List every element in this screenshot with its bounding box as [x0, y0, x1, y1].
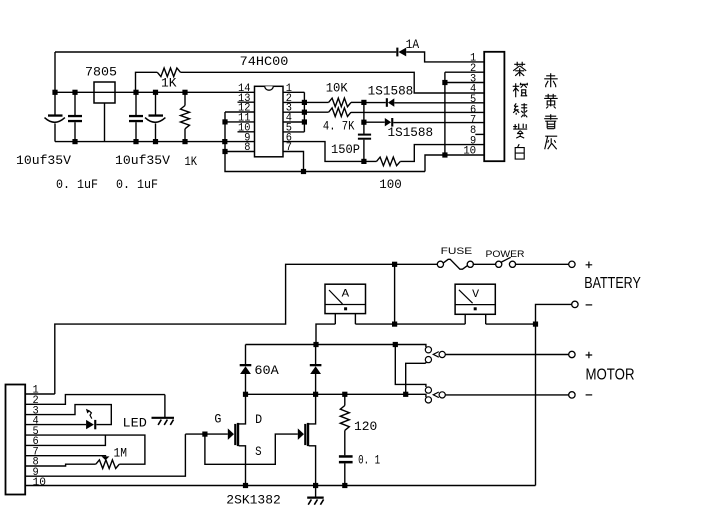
wire contact feed — [316, 344, 395, 346]
capacitor C6 0.1 — [339, 455, 353, 458]
meter A right leg — [354, 314, 356, 325]
wire +V rail (IC pin14) — [55, 91, 255, 93]
fuse F1 — [437, 261, 443, 267]
Q2 drain lead — [309, 394, 316, 424]
kanji hai 灰 — [545, 136, 558, 149]
contact circle F with arrow — [439, 392, 445, 398]
junction — [361, 100, 366, 105]
junction — [72, 139, 77, 144]
svg-text:1K: 1K — [161, 76, 177, 90]
junction — [313, 483, 318, 488]
junction — [533, 322, 538, 327]
IC pin 10 stub — [238, 131, 255, 133]
svg-text:120: 120 — [354, 420, 377, 434]
J2 pin2 wire to ground — [25, 395, 165, 405]
wire to contact A — [395, 345, 426, 348]
kanji dai 橙 — [513, 83, 528, 98]
capacitor C4 10uf35V electrolytic — [155, 92, 157, 115]
ground symbol under Q2 — [315, 486, 317, 498]
kanji cha 茶 — [513, 62, 526, 77]
junction — [133, 139, 138, 144]
svg-text:10: 10 — [463, 146, 476, 158]
wire drain rail — [246, 394, 426, 397]
J2 pin3 wire loop to LED cathode — [25, 405, 111, 425]
IC U1 74HC00 — [255, 86, 284, 157]
wire top rail from +12V to diode — [55, 51, 396, 53]
wire IC pins1-5 tie — [303, 92, 305, 132]
junction — [243, 483, 248, 488]
svg-text:10uf35V: 10uf35V — [16, 154, 72, 168]
svg-text:1S1588: 1S1588 — [368, 85, 414, 99]
junction — [243, 392, 248, 397]
wire battery- to ground rail — [536, 304, 572, 485]
junction — [442, 80, 447, 85]
wire left drop — [54, 52, 56, 92]
diode D3 1A — [396, 48, 398, 57]
meter M1 ammeter — [325, 284, 366, 313]
svg-text:10K: 10K — [326, 81, 348, 95]
svg-text:100: 100 — [379, 178, 402, 192]
wire diode to connector pin1 — [406, 52, 484, 62]
kanji aka 赤 — [544, 73, 558, 87]
junction pin2 — [302, 100, 307, 105]
svg-text:POWER: POWER — [486, 249, 525, 260]
svg-text:7: 7 — [286, 142, 292, 154]
svg-text:8: 8 — [244, 142, 250, 154]
junction — [313, 342, 318, 347]
diode D1 1S1588 — [364, 102, 386, 104]
junction — [342, 392, 347, 397]
svg-text:10: 10 — [33, 477, 47, 489]
junction pin8 — [222, 149, 227, 154]
junction — [182, 139, 187, 144]
svg-text:60A: 60A — [254, 364, 279, 378]
junction — [52, 90, 57, 95]
IC pin 4 — [283, 121, 304, 123]
wire to 60A diode 1 — [246, 344, 317, 346]
terminal battery + — [569, 261, 575, 267]
kanji shiro 白 — [515, 144, 524, 159]
diode D4 60A — [245, 345, 247, 365]
wire gate tie to Q2 — [205, 434, 298, 464]
LED arrow — [89, 411, 91, 419]
wire pins2-3-10 tie — [444, 72, 446, 155]
IC pin 11 — [225, 121, 255, 123]
connector pin3 wire — [445, 82, 484, 84]
junction — [342, 483, 347, 488]
wire gnd rail (IC pin9) — [55, 141, 255, 143]
junction — [403, 392, 408, 397]
contact circle C with arrow — [439, 351, 445, 357]
connector J2 — [6, 385, 26, 495]
wire contact B to drain rail — [406, 362, 427, 395]
wire source/ground rail (J2 pin10) — [25, 485, 535, 487]
contact circle D — [425, 387, 431, 393]
regulator U2 7805 — [94, 82, 115, 103]
junction gate — [202, 432, 207, 437]
resistor R1 1K horizontal — [136, 72, 158, 92]
svg-text:150P: 150P — [331, 143, 360, 157]
minus sign battery — [586, 304, 593, 306]
svg-text:1A: 1A — [406, 38, 420, 52]
J2 pin5 wire to pot right — [25, 435, 145, 464]
J2 pin7 wire to wiper — [25, 455, 105, 458]
junction — [442, 152, 447, 157]
junction — [361, 159, 366, 164]
IC pin 12 — [225, 111, 255, 113]
diode D2 1S1588 — [364, 121, 385, 123]
IC pin 6 wire — [283, 142, 377, 162]
svg-text:1M: 1M — [114, 447, 128, 461]
wire J2 pin1 up to battery feed — [25, 393, 55, 395]
svg-text:1S1588: 1S1588 — [388, 126, 434, 140]
junction — [153, 90, 158, 95]
svg-text:0. 1uF: 0. 1uF — [116, 178, 158, 192]
contact circle A — [425, 347, 431, 353]
J2 pin8 wire to pot left — [25, 464, 96, 466]
wire to motor+ — [445, 354, 568, 356]
svg-text:2SK1382: 2SK1382 — [226, 493, 280, 507]
potentiometer VR1 1M — [96, 460, 120, 469]
junction pin4 — [302, 119, 307, 124]
connector pin8 stub — [475, 133, 484, 135]
switch S1 POWER — [496, 261, 502, 267]
svg-text:BATTERY: BATTERY — [584, 275, 641, 292]
svg-text:D: D — [255, 413, 262, 427]
svg-text:S: S — [255, 445, 262, 459]
svg-text:4. 7K: 4. 7K — [323, 120, 355, 134]
junction — [392, 322, 397, 327]
svg-text:FUSE: FUSE — [441, 246, 473, 257]
wire IC12/11/9/8 tie to long net — [225, 112, 425, 172]
minus sign motor — [586, 394, 593, 396]
wire feed to contact D — [395, 345, 426, 388]
svg-text:MOTOR: MOTOR — [586, 367, 635, 384]
svg-text:1K: 1K — [185, 155, 198, 169]
svg-text:A: A — [342, 288, 350, 300]
meter needle — [459, 290, 473, 303]
contact circle B — [425, 357, 431, 363]
plus sign battery — [586, 262, 593, 269]
junction — [313, 392, 318, 397]
transistor Q1 2SK1382 — [185, 433, 227, 435]
LED D6 — [86, 420, 94, 429]
svg-text:0. 1: 0. 1 — [358, 454, 380, 468]
wire down to meter rail — [394, 264, 396, 324]
kanji ki 黄 — [544, 94, 558, 109]
resistor R4 4.7K + IC pin 3 line — [283, 111, 329, 113]
J2 pin6 wire — [25, 435, 105, 445]
resistor R2 1K vertical — [184, 92, 186, 105]
wire fuse to switch — [473, 263, 497, 265]
junction — [133, 90, 138, 95]
junction pin11 — [222, 119, 227, 124]
IC pin 8 — [225, 151, 255, 153]
meter V left leg — [464, 314, 466, 324]
svg-text:G: G — [214, 413, 221, 427]
junction — [301, 169, 306, 174]
terminal motor - — [569, 392, 575, 398]
wire meter A to contact feed — [316, 324, 335, 344]
diode D5 60A — [315, 345, 317, 365]
IC pin 7 wire — [283, 152, 304, 172]
wire to motor- — [445, 394, 568, 396]
capacitor C1 10uf35V electrolytic — [54, 92, 56, 115]
IC pin 1 — [283, 91, 304, 93]
plus sign motor — [586, 352, 593, 359]
transistor Q2 2SK1382 — [298, 428, 304, 440]
wire pin10 to long net — [425, 155, 484, 172]
meter A left leg — [334, 314, 336, 325]
connector J1 — [484, 52, 504, 161]
resistor R3 10K + IC pin 2 line — [283, 101, 329, 103]
IC pin 5 — [283, 131, 304, 133]
meter V right leg — [485, 314, 487, 324]
IC pin 13 stub — [238, 101, 255, 103]
J2 pin9 wire to gate — [25, 434, 185, 476]
wire meter V to battery- drop — [486, 323, 536, 325]
wire switch to battery+ — [515, 263, 569, 265]
junction — [393, 342, 398, 347]
connector pin2 wire — [445, 71, 484, 73]
junction pin3 — [302, 110, 307, 115]
junction — [182, 90, 187, 95]
Q1 source lead — [239, 446, 246, 486]
junction — [222, 139, 227, 144]
kanji ao 青 — [544, 114, 558, 129]
resistor R6 120 — [344, 394, 346, 405]
junction — [72, 90, 77, 95]
capacitor C2 0.1uF — [74, 92, 76, 115]
terminal motor + — [569, 351, 575, 357]
meter M2 voltmeter — [455, 284, 495, 314]
svg-text:7805: 7805 — [85, 65, 117, 79]
J2 pin4 wire — [25, 424, 86, 426]
junction — [153, 139, 158, 144]
meter needle — [329, 290, 343, 304]
svg-text:0. 1uF: 0. 1uF — [56, 178, 98, 192]
ground symbol near LED — [164, 395, 166, 417]
junction — [361, 120, 366, 125]
svg-text:LED: LED — [123, 416, 147, 430]
contact circle E — [425, 397, 431, 403]
junction — [392, 262, 397, 267]
Q2 source lead — [309, 446, 316, 486]
svg-text:10uf35V: 10uf35V — [115, 154, 171, 168]
wire 7805 gnd pin — [104, 103, 106, 142]
terminal battery - — [572, 301, 578, 307]
kanji midori 緑 — [513, 103, 527, 117]
wire meter A to meter V — [355, 323, 465, 325]
capacitor C5 150P — [363, 102, 365, 133]
kanji murasaki 紫 — [513, 124, 527, 139]
Q1 drain lead — [239, 394, 246, 424]
capacitor C3 0.1uF — [135, 92, 137, 115]
svg-text:74HC00: 74HC00 — [240, 55, 289, 69]
svg-text:V: V — [472, 289, 479, 301]
